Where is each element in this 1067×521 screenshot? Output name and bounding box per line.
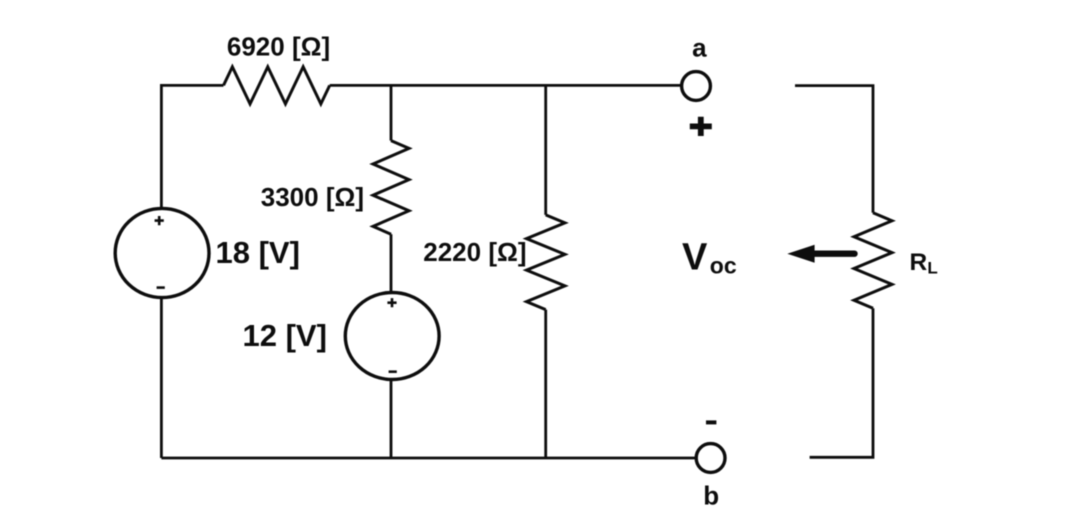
wire RL bottom stub <box>810 308 873 457</box>
svg-text:2220 [Ω]: 2220 [Ω] <box>423 237 526 267</box>
plus sign at terminal a <box>690 117 712 136</box>
svg-text:12 [V]: 12 [V] <box>243 318 327 353</box>
arrow pointing left toward Voc <box>787 245 814 263</box>
terminal b circle <box>696 444 725 473</box>
V2 minus sign <box>389 370 397 373</box>
svg-text:18 [V]: 18 [V] <box>216 235 300 270</box>
V1 plus sign <box>155 216 164 225</box>
svg-text:R: R <box>910 249 928 276</box>
voltage source V2 12V circle <box>345 293 439 380</box>
svg-text:a: a <box>692 32 707 62</box>
svg-text:3300 [Ω]: 3300 [Ω] <box>261 182 364 212</box>
svg-text:b: b <box>703 481 719 511</box>
resistor RL <box>854 213 892 308</box>
wire middle branch between resistor and 12V source <box>390 234 393 291</box>
wire RL top stub <box>795 86 873 213</box>
wire middle branch upper <box>390 85 393 140</box>
wire 2220 branch lower <box>544 310 547 458</box>
V2 plus sign <box>387 298 396 307</box>
wire top-left segment and left vertical <box>161 85 223 207</box>
svg-text:oc: oc <box>710 252 737 278</box>
voltage source V1 18V circle <box>115 208 209 297</box>
wire middle branch lower <box>390 381 393 458</box>
resistor 2220 ohm <box>527 215 565 310</box>
svg-text:V: V <box>682 237 708 279</box>
resistor 6920 ohm <box>224 67 330 104</box>
svg-text:L: L <box>927 259 937 278</box>
resistor 3300 ohm <box>373 141 409 235</box>
V1 minus sign <box>157 286 165 289</box>
wire 2220 branch upper <box>544 85 547 215</box>
wire bottom to terminal b <box>161 457 695 460</box>
svg-text:6920 [Ω]: 6920 [Ω] <box>227 32 330 62</box>
wire top to terminal a <box>330 84 681 87</box>
terminal a circle <box>682 72 711 101</box>
wire left lower <box>160 299 163 458</box>
minus sign at terminal b <box>706 420 716 424</box>
